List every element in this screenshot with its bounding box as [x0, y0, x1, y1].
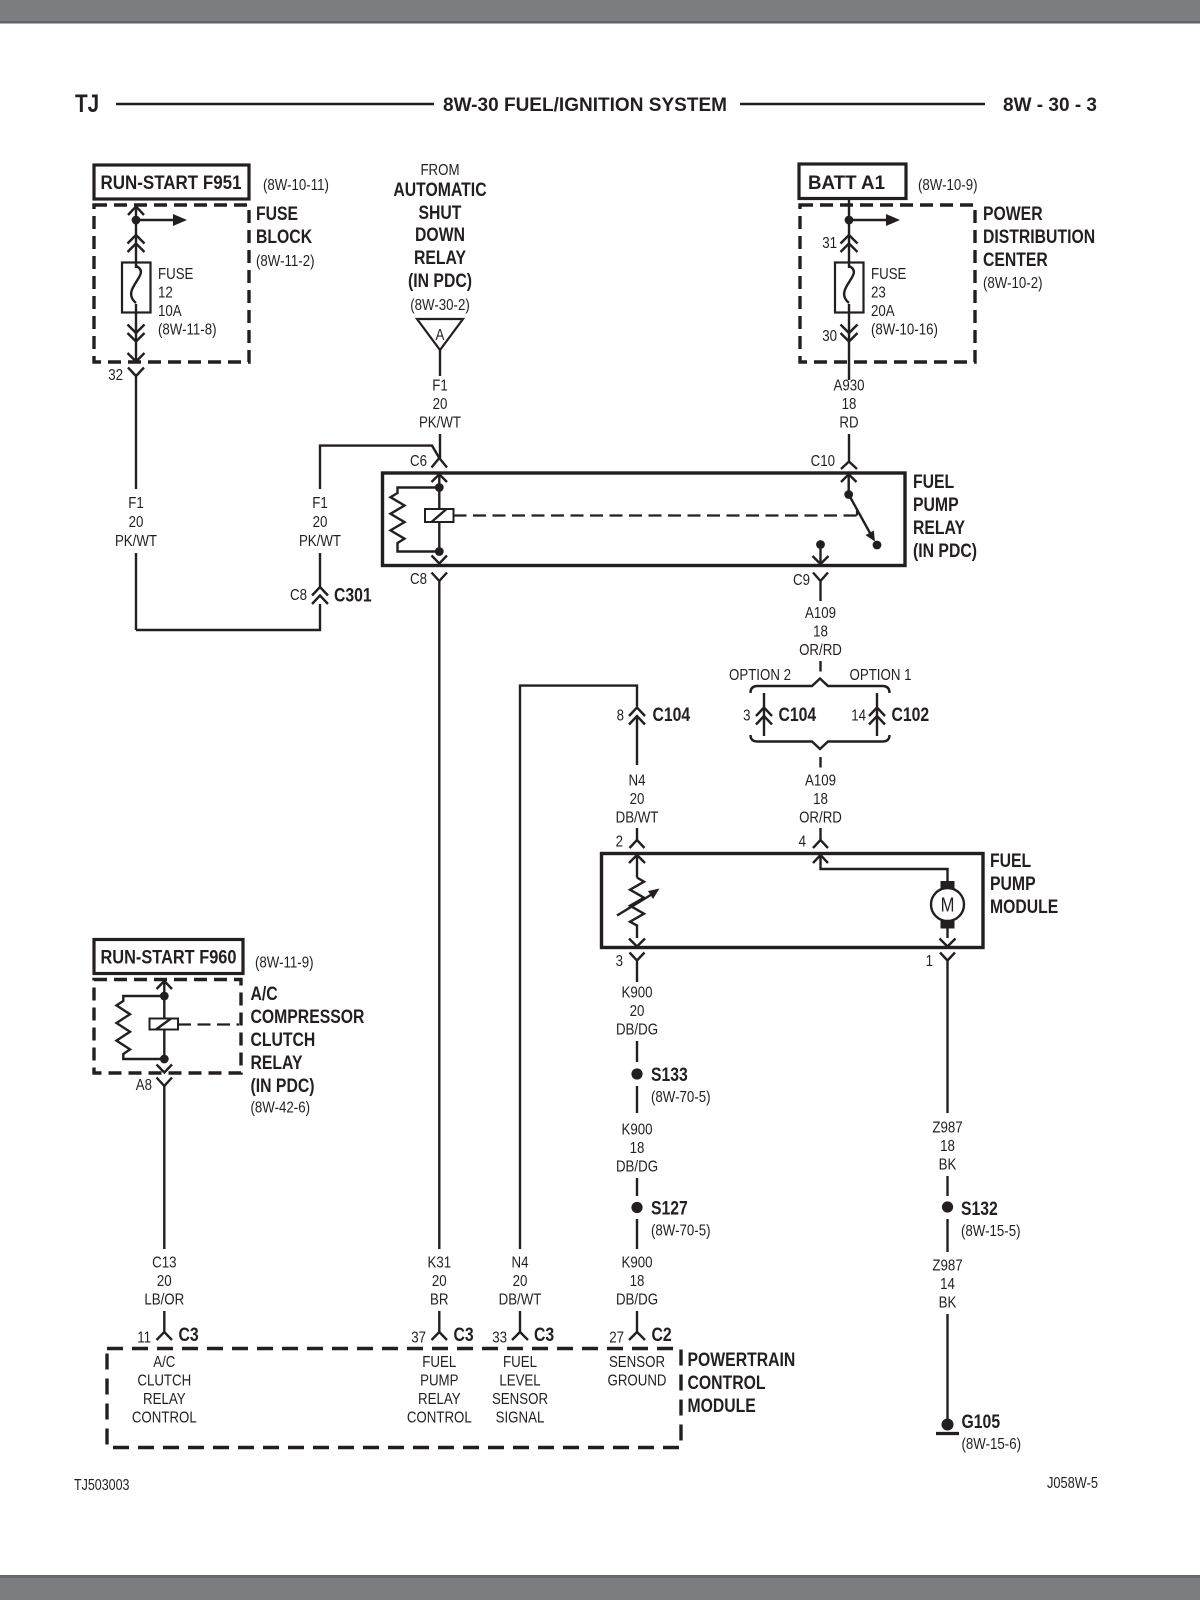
svg-text:C301: C301	[334, 586, 372, 607]
svg-text:DB/DG: DB/DG	[616, 1292, 658, 1309]
node junction in PDC	[845, 216, 854, 225]
svg-text:C10: C10	[811, 453, 835, 470]
svg-text:COMPRESSOR: COMPRESSOR	[251, 1007, 365, 1028]
svg-text:K900: K900	[622, 1255, 653, 1272]
svg-text:18: 18	[842, 396, 857, 413]
svg-text:A/C: A/C	[251, 984, 278, 1005]
PCM label fuel pump relay control	[407, 1354, 472, 1427]
svg-text:FUEL: FUEL	[990, 851, 1032, 872]
svg-text:Z987: Z987	[932, 1258, 962, 1275]
fuel pump motor exit arrow pin 1	[940, 939, 956, 947]
svg-text:C8: C8	[410, 571, 427, 588]
svg-text:8W-30 FUEL/IGNITION SYSTEM: 8W-30 FUEL/IGNITION SYSTEM	[443, 94, 727, 116]
svg-text:8: 8	[617, 708, 624, 725]
svg-text:N4: N4	[512, 1255, 529, 1272]
svg-text:S127: S127	[651, 1199, 688, 1220]
A/C relay coil feed entry arrow	[157, 981, 173, 1059]
svg-text:(8W-10-16): (8W-10-16)	[871, 322, 938, 339]
PCM pin 11 connector C3	[137, 1325, 199, 1347]
relay winding resistor	[391, 488, 440, 552]
relay output exit arrow to C9	[813, 545, 829, 565]
wire F1 20 PK/WT to relay branch	[299, 446, 439, 587]
svg-text:4: 4	[799, 834, 806, 851]
relay switch common entry arrow from C10	[841, 474, 857, 494]
ground G105	[936, 1412, 1021, 1453]
svg-text:PK/WT: PK/WT	[115, 533, 157, 550]
power distribution center BATT A1 title box	[799, 164, 978, 199]
svg-text:CLUTCH: CLUTCH	[137, 1373, 191, 1390]
relay coil feed entry arrow C6	[432, 474, 448, 551]
svg-text:30: 30	[822, 328, 837, 345]
relay coil element symbol	[425, 509, 454, 522]
bottom gray bar	[0, 1575, 1200, 1600]
relay coil top junction	[435, 483, 444, 492]
svg-text:N4: N4	[629, 773, 646, 790]
svg-text:DOWN: DOWN	[415, 225, 465, 246]
svg-text:20: 20	[313, 514, 328, 531]
A/C relay coil top junction	[160, 992, 169, 1001]
svg-text:(8W-15-6): (8W-15-6)	[962, 1436, 1022, 1453]
svg-text:FROM: FROM	[420, 162, 459, 179]
svg-text:20: 20	[129, 514, 144, 531]
wire below fuse 23	[848, 304, 850, 380]
wire A109 18 OR/RD to module	[799, 757, 842, 840]
svg-text:(8W-11-8): (8W-11-8)	[158, 322, 217, 339]
wire A109 18 OR/RD from C9	[799, 589, 842, 672]
svg-text:FUEL: FUEL	[913, 472, 955, 493]
connector C8 below relay	[410, 571, 447, 589]
connector C6	[410, 453, 447, 470]
svg-text:RELAY: RELAY	[414, 248, 466, 269]
PCM pin 33 connector C3	[492, 1325, 554, 1347]
svg-text:(8W-11-2): (8W-11-2)	[256, 253, 315, 270]
svg-text:F1: F1	[432, 378, 448, 395]
svg-text:BK: BK	[939, 1157, 957, 1174]
svg-text:SENSOR: SENSOR	[609, 1354, 665, 1371]
svg-text:14: 14	[940, 1276, 955, 1293]
svg-text:DISTRIBUTION: DISTRIBUTION	[983, 227, 1095, 248]
relay mechanical dashed link	[454, 510, 858, 516]
fuse F12 10A	[122, 263, 217, 339]
svg-text:RELAY: RELAY	[913, 518, 965, 539]
top gray bar	[0, 0, 1200, 21]
svg-text:20A: 20A	[871, 303, 895, 320]
svg-text:A: A	[436, 327, 445, 344]
connector A8 below A/C relay	[136, 1077, 172, 1094]
svg-text:(8W-42-6): (8W-42-6)	[251, 1100, 311, 1117]
svg-text:11: 11	[137, 1330, 151, 1347]
svg-text:(IN PDC): (IN PDC)	[251, 1076, 315, 1097]
relay switch arm contact	[873, 541, 882, 550]
svg-text:OPTION 1: OPTION 1	[850, 667, 912, 684]
A/C compressor clutch relay dashed outline	[94, 980, 365, 1117]
svg-text:OR/RD: OR/RD	[799, 810, 842, 827]
svg-text:POWER: POWER	[983, 204, 1043, 225]
svg-text:PUMP: PUMP	[990, 874, 1036, 895]
svg-text:C104: C104	[653, 705, 691, 726]
svg-text:K31: K31	[428, 1255, 452, 1272]
svg-text:(8W-11-9): (8W-11-9)	[255, 955, 314, 972]
wire C13 20 LB/OR to PCM pin 11	[144, 1094, 184, 1333]
splice S127	[631, 1199, 710, 1240]
svg-text:G105: G105	[962, 1412, 1001, 1433]
svg-text:CONTROL: CONTROL	[132, 1410, 197, 1427]
svg-text:PUMP: PUMP	[913, 495, 959, 516]
svg-text:C13: C13	[152, 1255, 176, 1272]
svg-text:RELAY: RELAY	[251, 1053, 303, 1074]
splice S133	[631, 1065, 710, 1106]
wire N4 20 DB/WT upper run from PCM pin 33	[520, 686, 637, 1249]
module pin 4 connector	[799, 834, 828, 851]
option merge brace bottom	[751, 735, 890, 749]
A/C relay coil bottom junction	[160, 1055, 169, 1064]
svg-text:8W - 30 - 3: 8W - 30 - 3	[1003, 94, 1097, 116]
svg-text:MODULE: MODULE	[688, 1396, 756, 1417]
wire corner to C301	[136, 604, 320, 630]
svg-text:DB/WT: DB/WT	[499, 1292, 542, 1309]
A/C relay coil element symbol	[150, 1019, 179, 1030]
svg-text:SHUT: SHUT	[419, 203, 462, 224]
fuel pump motor feed entry arrow pin 4	[813, 855, 948, 882]
module pin 1 connector	[926, 953, 955, 971]
svg-text:S132: S132	[961, 1199, 998, 1220]
node junction in F951	[132, 216, 141, 225]
A/C relay coil exit arrow	[157, 1065, 173, 1073]
svg-text:(IN PDC): (IN PDC)	[913, 541, 977, 562]
relay coil exit arrow to C8	[432, 556, 448, 564]
connector C9 below relay	[793, 572, 828, 589]
fuse F23 20A	[835, 263, 938, 339]
fuse block F951 title box	[94, 165, 329, 199]
fuel level sensor variable resistor	[617, 878, 660, 939]
svg-text:BK: BK	[939, 1295, 957, 1312]
svg-text:PUMP: PUMP	[420, 1373, 458, 1390]
svg-text:2: 2	[616, 834, 623, 851]
svg-text:RELAY: RELAY	[143, 1391, 186, 1408]
svg-text:S133: S133	[651, 1065, 688, 1086]
svg-text:10A: 10A	[158, 303, 182, 320]
module pin 2 connector	[616, 834, 645, 851]
off-page connector A triangle	[417, 319, 463, 376]
svg-text:14: 14	[851, 708, 866, 725]
fuse block F951 dashed outline	[94, 204, 315, 362]
svg-text:M: M	[941, 895, 955, 917]
svg-text:(8W-70-5): (8W-70-5)	[651, 1089, 711, 1106]
svg-text:AUTOMATIC: AUTOMATIC	[393, 180, 486, 201]
svg-text:(IN PDC): (IN PDC)	[408, 271, 472, 292]
svg-text:A8: A8	[136, 1077, 152, 1094]
connector C104 pin 3 (option 2)	[743, 693, 816, 736]
svg-text:FUEL: FUEL	[503, 1354, 537, 1371]
svg-text:A930: A930	[834, 378, 865, 395]
svg-text:(8W-30-2): (8W-30-2)	[410, 297, 470, 314]
fuel level sensor exit arrow pin 3	[629, 939, 645, 947]
svg-text:A109: A109	[805, 773, 836, 790]
splice S132	[942, 1199, 1021, 1240]
svg-text:FUSE: FUSE	[158, 266, 193, 283]
svg-text:33: 33	[492, 1330, 507, 1347]
connector C104 pin 8 chevrons	[617, 705, 691, 765]
pin 31 connector chevrons above fuse 23	[822, 235, 857, 252]
svg-text:(8W-15-5): (8W-15-5)	[961, 1223, 1021, 1240]
A/C relay mechanical dashed link	[178, 1023, 239, 1025]
svg-text:20: 20	[630, 1003, 645, 1020]
svg-text:FUSE: FUSE	[256, 204, 298, 225]
svg-text:GROUND: GROUND	[608, 1373, 667, 1390]
svg-text:SENSOR: SENSOR	[492, 1391, 548, 1408]
svg-text:20: 20	[432, 1273, 447, 1290]
svg-text:BR: BR	[430, 1292, 449, 1309]
svg-text:18: 18	[813, 791, 828, 808]
svg-text:K900: K900	[622, 1122, 653, 1139]
svg-text:23: 23	[871, 285, 886, 302]
svg-text:BLOCK: BLOCK	[256, 227, 312, 248]
svg-text:1: 1	[926, 953, 933, 970]
svg-text:Z987: Z987	[932, 1120, 962, 1137]
svg-text:DB/DG: DB/DG	[616, 1022, 658, 1039]
svg-text:F1: F1	[128, 495, 144, 512]
connector chevrons below fuse 12	[128, 325, 145, 362]
svg-text:POWERTRAIN: POWERTRAIN	[688, 1350, 796, 1371]
PCM label fuel level sensor signal	[492, 1354, 548, 1427]
svg-text:C3: C3	[534, 1325, 554, 1346]
option split brace top	[729, 667, 912, 693]
svg-text:K900: K900	[622, 985, 653, 1002]
svg-text:18: 18	[630, 1273, 645, 1290]
relay coil bottom junction	[435, 547, 444, 556]
wire N4 20 DB/WT lower label	[499, 1255, 542, 1333]
svg-text:PK/WT: PK/WT	[419, 415, 461, 432]
svg-text:RELAY: RELAY	[418, 1391, 461, 1408]
power distribution center dashed outline	[800, 204, 1095, 362]
wire K900 20 DB/DG	[616, 968, 658, 1062]
svg-text:MODULE: MODULE	[990, 897, 1058, 918]
svg-text:TJ503003: TJ503003	[74, 1477, 130, 1494]
svg-text:(8W-70-5): (8W-70-5)	[651, 1223, 711, 1240]
connector C10	[811, 453, 857, 470]
svg-text:BATT A1: BATT A1	[808, 173, 885, 194]
svg-text:CLUTCH: CLUTCH	[251, 1030, 316, 1051]
svg-text:CONTROL: CONTROL	[407, 1410, 472, 1427]
fuel pump module box	[602, 851, 1059, 948]
svg-text:RD: RD	[839, 415, 858, 432]
module pin 3 connector	[616, 953, 645, 971]
svg-text:20: 20	[157, 1273, 172, 1290]
relay output contact	[816, 540, 825, 549]
branch feed arrow right in PDC	[849, 214, 900, 226]
svg-text:(8W-10-2): (8W-10-2)	[983, 275, 1043, 292]
svg-text:DB/DG: DB/DG	[616, 1159, 658, 1176]
svg-text:CONTROL: CONTROL	[688, 1373, 766, 1394]
wire Z987 18 BK from module pin 1	[932, 968, 962, 1196]
svg-text:18: 18	[630, 1140, 645, 1157]
wire from BATT A1 into PDC	[848, 199, 850, 268]
svg-text:12: 12	[158, 285, 173, 302]
fuel pump relay box	[383, 472, 978, 566]
svg-text:18: 18	[813, 624, 828, 641]
svg-text:37: 37	[411, 1330, 426, 1347]
pin 32 female connector below F951	[108, 367, 144, 386]
connector C301 pin C8 chevrons	[290, 586, 372, 607]
svg-text:RUN-START F951: RUN-START F951	[101, 173, 242, 194]
svg-text:OR/RD: OR/RD	[799, 642, 842, 659]
powertrain control module dashed outline	[107, 1349, 795, 1448]
connector C102 pin 14 (option 1)	[851, 693, 929, 736]
svg-text:FUSE: FUSE	[871, 266, 906, 283]
wire from F951 bus with entry arrow	[128, 207, 144, 269]
wire below fuse 12	[135, 304, 137, 361]
svg-text:20: 20	[513, 1273, 528, 1290]
wire Z987 14 BK to ground	[932, 1219, 962, 1419]
svg-text:18: 18	[940, 1138, 955, 1155]
wire K900 18 DB/DG to PCM pin 27	[616, 1219, 658, 1332]
svg-text:PK/WT: PK/WT	[299, 533, 341, 550]
svg-text:FUEL: FUEL	[422, 1354, 456, 1371]
fuel pump motor M	[931, 881, 964, 938]
svg-text:(8W-10-11): (8W-10-11)	[263, 177, 329, 194]
svg-text:SIGNAL: SIGNAL	[496, 1410, 545, 1427]
fuse block F960 title box	[94, 940, 314, 974]
svg-text:27: 27	[609, 1330, 624, 1347]
PCM pin 27 connector C2	[609, 1325, 672, 1347]
wire K900 18 DB/DG upper	[616, 1086, 658, 1196]
wire A930 18 RD	[834, 378, 865, 456]
svg-text:3: 3	[616, 953, 623, 970]
svg-text:C2: C2	[652, 1325, 672, 1346]
wire F1 20 PK/WT left run	[115, 386, 157, 630]
PCM pin 37 connector C3	[411, 1325, 474, 1347]
PCM label a/c clutch relay control	[132, 1354, 197, 1427]
svg-text:LEVEL: LEVEL	[499, 1373, 540, 1390]
svg-text:J058W-5: J058W-5	[1047, 1475, 1098, 1492]
PCM label sensor ground	[608, 1354, 667, 1390]
header: page title	[75, 90, 1097, 118]
svg-text:C3: C3	[454, 1325, 474, 1346]
relay switch pivot	[844, 490, 853, 499]
svg-text:C104: C104	[779, 705, 817, 726]
fuel level sensor entry arrow pin 2	[629, 855, 645, 878]
svg-text:C102: C102	[892, 705, 930, 726]
svg-text:OPTION 2: OPTION 2	[729, 667, 791, 684]
svg-text:20: 20	[433, 396, 448, 413]
svg-text:A109: A109	[805, 605, 836, 622]
svg-text:C8: C8	[290, 587, 307, 604]
svg-text:LB/OR: LB/OR	[144, 1292, 184, 1309]
wire N4 20 DB/WT to module pin 2	[616, 773, 659, 841]
svg-text:31: 31	[822, 235, 837, 252]
svg-text:RUN-START F960: RUN-START F960	[101, 948, 237, 969]
connector chevrons above fuse 12	[128, 235, 145, 252]
svg-text:CENTER: CENTER	[983, 250, 1048, 271]
relay switch movable arm	[849, 495, 875, 542]
wire F1 20 PK/WT from ASD relay	[419, 378, 461, 459]
svg-text:C6: C6	[410, 453, 427, 470]
svg-text:DB/WT: DB/WT	[616, 810, 659, 827]
svg-text:TJ: TJ	[75, 90, 99, 118]
note: from automatic shut down relay	[393, 162, 486, 314]
svg-text:C3: C3	[179, 1325, 199, 1346]
branch feed arrow right in F951	[136, 214, 187, 226]
pin 30 connector chevrons below fuse 23	[822, 325, 857, 346]
svg-text:20: 20	[630, 791, 645, 808]
svg-text:F1: F1	[312, 495, 328, 512]
svg-text:(8W-10-9): (8W-10-9)	[918, 177, 978, 194]
wire K31 20 BR from relay C8 to PCM pin 37	[428, 589, 452, 1333]
svg-text:A/C: A/C	[153, 1354, 175, 1371]
svg-text:C9: C9	[793, 572, 810, 589]
svg-text:32: 32	[108, 367, 123, 384]
svg-text:3: 3	[743, 708, 750, 725]
A/C relay winding resistor	[117, 996, 165, 1059]
